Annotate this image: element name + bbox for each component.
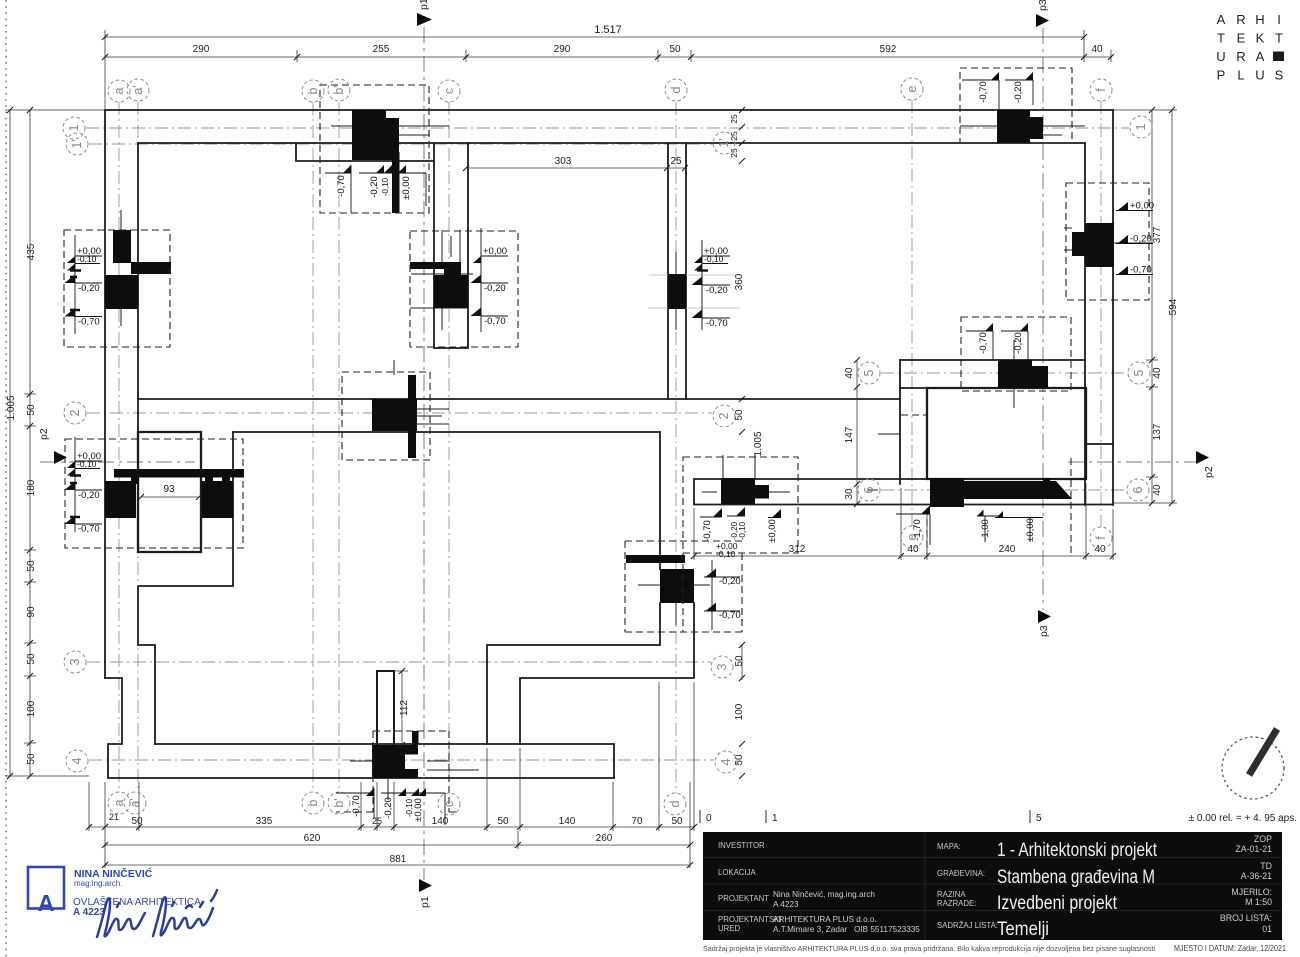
svg-text:-1,70: -1,70 <box>912 519 923 541</box>
svg-text:-0,10: -0,10 <box>77 459 97 469</box>
grid row 5 <box>881 372 1127 374</box>
section marker p3 bottom <box>1038 610 1051 623</box>
svg-text:40: 40 <box>907 544 919 555</box>
svg-text:A 4223: A 4223 <box>73 907 105 918</box>
svg-text:d: d <box>669 86 683 93</box>
svg-text:Sadržaj projekta je vlasništvo: Sadržaj projekta je vlasništvo ARHITEKTU… <box>703 944 1155 953</box>
wall col-d <box>668 143 686 399</box>
svg-text:5: 5 <box>1036 813 1042 824</box>
svg-text:p2: p2 <box>1203 466 1215 478</box>
svg-text:Temelji: Temelji <box>997 919 1049 940</box>
pad row3 col d <box>626 555 685 563</box>
G6: texts <box>63 72 1154 825</box>
svg-text:881: 881 <box>390 854 407 865</box>
svg-text:RAZINA: RAZINA <box>937 890 966 899</box>
svg-text:137: 137 <box>1152 423 1163 440</box>
pad col e top <box>997 110 1030 143</box>
svg-text:b: b <box>306 799 320 806</box>
right section connector y388 <box>900 387 927 389</box>
svg-text:112: 112 <box>399 700 410 716</box>
rebar lines col f pad <box>1064 228 1152 250</box>
flag cluster col b rotated lines <box>325 165 426 213</box>
pad col d row1' <box>668 274 686 309</box>
logo ARHITEKTURA PLUS <box>1216 12 1283 83</box>
svg-text:mag.ing.arch.: mag.ing.arch. <box>74 879 122 888</box>
compass needle <box>1249 729 1277 775</box>
G4: dashed foundation boxes <box>64 68 1149 812</box>
svg-text:40: 40 <box>1152 484 1163 496</box>
dim line 112 <box>394 671 408 745</box>
svg-text:LOKACIJA: LOKACIJA <box>718 868 756 877</box>
svg-text:R: R <box>1236 12 1245 27</box>
flag triangles col c <box>473 256 481 263</box>
svg-text:PROJEKTANTSKI: PROJEKTANTSKI <box>718 915 782 924</box>
right section step y444 <box>1086 443 1113 445</box>
svg-text:-0,20: -0,20 <box>1130 234 1152 245</box>
svg-text:25: 25 <box>670 156 682 167</box>
dim extension right bottom <box>694 483 1113 560</box>
grid column a <box>118 102 120 792</box>
svg-text:620: 620 <box>304 833 321 844</box>
svg-text:335: 335 <box>256 816 273 827</box>
svg-text:SADRŽAJ LISTA:: SADRŽAJ LISTA: <box>937 921 998 930</box>
corridor walls row6 <box>694 479 1113 505</box>
svg-text:+0,00: +0,00 <box>1130 201 1154 212</box>
section marker p3 top <box>1036 14 1049 27</box>
svg-text:R: R <box>1236 49 1245 64</box>
section lines <box>40 27 1196 880</box>
svg-text:-0,70: -0,70 <box>702 520 713 542</box>
svg-text:-1,00: -1,00 <box>980 519 991 541</box>
section line p2 left <box>40 461 195 463</box>
svg-text:b': b' <box>332 798 346 807</box>
rebar lines col e pad row5 <box>1013 340 1015 408</box>
svg-text:1.517: 1.517 <box>594 24 622 36</box>
svg-text:GRAĐEVINA:: GRAĐEVINA: <box>937 869 985 878</box>
svg-text:-0,10: -0,10 <box>704 254 724 264</box>
svg-text:T: T <box>1217 31 1225 46</box>
flag cluster col e top lines <box>962 80 1033 110</box>
svg-text:-0,20: -0,20 <box>369 176 380 198</box>
dim labels horizontal <box>109 24 1106 865</box>
svg-text:3: 3 <box>68 658 82 665</box>
svg-text:± 0.00 rel. = + 4. 95 aps.: ± 0.00 rel. = + 4. 95 aps. <box>1189 813 1297 824</box>
svg-text:5: 5 <box>1132 369 1146 376</box>
foundation box row3 pad <box>625 541 742 632</box>
svg-text:290: 290 <box>193 44 210 55</box>
dim extension right <box>1113 110 1177 503</box>
svg-text:RAZRADE:: RAZRADE: <box>937 899 976 908</box>
svg-text:a': a' <box>131 85 145 94</box>
svg-text:40: 40 <box>1152 367 1163 379</box>
svg-text:-0,70: -0,70 <box>78 524 100 535</box>
dim line top segments <box>105 56 1111 58</box>
logo square <box>1273 52 1284 62</box>
right wall inner <box>1084 143 1086 505</box>
flag cluster right bottom lines <box>896 514 1043 545</box>
G5: dimension lines <box>5 30 1177 868</box>
svg-text:f: f <box>1094 88 1108 92</box>
grid column c <box>448 102 450 793</box>
dim line left total 1.005 <box>9 110 11 776</box>
svg-text:I: I <box>1277 12 1281 27</box>
rotated flags row5 pad <box>985 323 1028 331</box>
svg-text:40: 40 <box>844 367 855 379</box>
elevation flags <box>70 80 1153 825</box>
svg-text:-0,20: -0,20 <box>78 490 100 501</box>
svg-text:50: 50 <box>26 653 37 665</box>
svg-text:50: 50 <box>26 560 37 572</box>
compass <box>1222 737 1284 799</box>
svg-text:0: 0 <box>706 813 712 824</box>
svg-text:A-36-21: A-36-21 <box>1241 871 1272 881</box>
dim line 93 <box>141 496 199 498</box>
rotated flags right bottom <box>921 506 1003 518</box>
wall col-d lower stub <box>659 432 661 569</box>
svg-text:b': b' <box>332 85 346 94</box>
section marker p1 bottom <box>419 879 432 892</box>
grid row 1 <box>86 127 1129 129</box>
foundation box row2 col b <box>342 372 430 460</box>
dim line left segments <box>29 110 31 776</box>
svg-text:-0,10: -0,10 <box>738 521 747 540</box>
foundation box stair cluster <box>65 439 243 548</box>
svg-text:±0,00: ±0,00 <box>401 176 412 200</box>
svg-text:1: 1 <box>1134 123 1148 130</box>
svg-text:1': 1' <box>717 138 731 147</box>
svg-text:30: 30 <box>844 488 855 500</box>
dim line mid rows 5-6 <box>856 360 858 504</box>
rebar lines right bottom pad <box>868 434 900 490</box>
svg-text:-0,20: -0,20 <box>78 283 100 294</box>
svg-text:b: b <box>306 87 320 94</box>
flag triangles col a <box>67 256 75 271</box>
svg-text:255: 255 <box>373 44 390 55</box>
svg-text:URED: URED <box>718 924 740 933</box>
flag cluster col d lines <box>702 240 730 330</box>
thin reinforcement lines <box>121 126 1152 800</box>
svg-text:a': a' <box>128 798 142 807</box>
svg-text:377: 377 <box>1152 226 1163 243</box>
rebar lines col c cluster <box>410 230 473 330</box>
right section room <box>927 388 1086 479</box>
rebar lines chimney <box>350 761 479 800</box>
svg-text:L: L <box>1237 68 1244 83</box>
svg-text:MJESTO I DATUM: Zadar, 12/2021: MJESTO I DATUM: Zadar, 12/2021 <box>1174 943 1286 953</box>
dim line right segments <box>1151 110 1153 503</box>
dim line mid rows x742 (segments only) <box>741 645 743 680</box>
svg-text:H: H <box>1255 12 1264 27</box>
svg-text:-0,10: -0,10 <box>716 549 736 559</box>
svg-text:100: 100 <box>734 703 745 720</box>
svg-text:P: P <box>1217 68 1226 83</box>
dim labels rotated <box>6 114 1179 766</box>
stamp box <box>28 867 64 909</box>
svg-text:-0,20: -0,20 <box>484 283 506 294</box>
foundation box right bottom <box>901 415 1071 556</box>
right section wall y360 <box>900 359 1085 361</box>
dim line right total 594 <box>1171 110 1173 503</box>
svg-text:50: 50 <box>734 655 745 667</box>
rebar lines col b top <box>310 126 449 143</box>
pad right bottom strip <box>930 478 964 507</box>
svg-text:A: A <box>1217 12 1226 27</box>
svg-text:1.005: 1.005 <box>6 395 17 420</box>
svg-text:A 4223: A 4223 <box>773 900 799 909</box>
pad row5 col e <box>998 360 1032 388</box>
svg-text:100: 100 <box>26 700 37 717</box>
svg-text:290: 290 <box>554 44 571 55</box>
svg-text:-0,70: -0,70 <box>706 318 728 329</box>
stamp texts <box>73 867 201 918</box>
svg-text:S: S <box>1275 68 1284 83</box>
svg-text:c: c <box>442 801 456 807</box>
wall col-c <box>434 143 468 348</box>
section marker p1 top <box>417 13 432 26</box>
G1: grid lines <box>86 100 1129 793</box>
flag cluster col f lines <box>1116 211 1153 275</box>
wall stair inner <box>138 432 233 744</box>
svg-text:4: 4 <box>719 758 733 765</box>
svg-text:K: K <box>1256 31 1265 46</box>
dim line top total 1.517 <box>105 36 1085 38</box>
svg-text:-0,70: -0,70 <box>978 332 989 354</box>
signature <box>97 890 217 937</box>
dim line bottom segments <box>89 826 694 828</box>
svg-text:-0,20: -0,20 <box>706 285 728 296</box>
section line p1 <box>423 27 425 880</box>
section line p3 <box>1042 28 1044 610</box>
dim extension top <box>105 30 1111 110</box>
svg-text:50: 50 <box>131 816 143 827</box>
svg-text:A.T.Mimare 3, Zadar OIB 5511: A.T.Mimare 3, Zadar OIB 55117523335 <box>773 925 920 934</box>
foundation box col f <box>1066 183 1149 300</box>
svg-text:70: 70 <box>631 816 643 827</box>
foundation box col b <box>320 85 429 213</box>
wall bottom inner <box>155 744 614 778</box>
flag triangles col d <box>694 256 702 271</box>
svg-text:40: 40 <box>1094 544 1106 555</box>
svg-text:ARHITEKTURA PLUS d.o.o.: ARHITEKTURA PLUS d.o.o. <box>773 915 877 924</box>
flag cluster col a lines <box>75 235 102 334</box>
svg-text:TD: TD <box>1260 861 1272 871</box>
grid row 3 <box>87 661 711 663</box>
svg-text:01: 01 <box>1262 924 1272 934</box>
svg-text:140: 140 <box>559 816 576 827</box>
svg-text:Izvedbeni projekt: Izvedbeni projekt <box>997 893 1118 914</box>
svg-text:6: 6 <box>1131 486 1145 493</box>
right section wall x900 <box>899 360 901 484</box>
wall top inner step <box>296 143 434 161</box>
flag cluster col c lines <box>481 228 508 332</box>
svg-text:180: 180 <box>26 479 37 496</box>
svg-text:-0,70: -0,70 <box>719 610 741 621</box>
svg-text:50: 50 <box>26 404 37 416</box>
svg-text:3: 3 <box>715 663 729 670</box>
foundation box chimney <box>336 731 460 812</box>
svg-text:25: 25 <box>729 148 739 158</box>
svg-text:5: 5 <box>862 369 876 376</box>
grid column b' <box>338 102 340 792</box>
svg-text:T: T <box>1275 31 1283 46</box>
wall left outer <box>104 110 106 678</box>
svg-text:c: c <box>442 88 456 94</box>
foundation box col c <box>410 231 518 347</box>
grid row 1' <box>89 143 712 145</box>
svg-text:p3: p3 <box>1037 0 1049 11</box>
dim line bottom 620/260 <box>105 844 690 846</box>
svg-text:-0,70: -0,70 <box>336 175 347 197</box>
svg-text:Stambena građevina M: Stambena građevina M <box>997 867 1155 888</box>
perforation dotted line left edge <box>5 0 7 957</box>
svg-text:E: E <box>1237 31 1246 46</box>
svg-text:1 - Arhitektonski projekt: 1 - Arhitektonski projekt <box>997 840 1158 861</box>
grid row 6 <box>881 489 1126 491</box>
foundation box col e top <box>960 68 1072 143</box>
svg-text:e: e <box>905 85 919 92</box>
svg-text:MAPA:: MAPA: <box>937 842 961 851</box>
svg-text:U: U <box>1255 68 1264 83</box>
svg-text:A: A <box>1256 49 1265 64</box>
dim line bottom 881 <box>105 864 690 866</box>
flag cluster stair lines <box>75 437 102 532</box>
svg-text:1.005: 1.005 <box>753 431 764 456</box>
svg-text:147: 147 <box>844 426 855 443</box>
svg-text:M 1:50: M 1:50 <box>1245 897 1272 907</box>
svg-text:-0,10: -0,10 <box>77 254 97 264</box>
grid column f <box>1100 101 1102 527</box>
svg-text:50: 50 <box>734 409 745 421</box>
svg-text:-0,20: -0,20 <box>1013 81 1024 103</box>
scale bar <box>700 810 1030 823</box>
svg-text:1: 1 <box>67 124 81 131</box>
rotated flags chimney <box>366 788 426 796</box>
grid row 2 <box>87 412 712 414</box>
flag cluster corridor lines <box>700 516 781 630</box>
svg-text:303: 303 <box>555 156 572 167</box>
wall top outer <box>105 109 1113 111</box>
flag triangles stair <box>67 461 75 476</box>
svg-text:-0,70: -0,70 <box>1130 265 1152 276</box>
svg-text:p1: p1 <box>419 896 431 908</box>
wall left inner <box>137 143 139 432</box>
dim extension bottom <box>89 682 694 868</box>
svg-text:p1: p1 <box>418 0 430 10</box>
wall left bottom notch <box>105 678 614 778</box>
rebar lines col e top <box>960 126 1085 135</box>
svg-text:6: 6 <box>862 486 876 493</box>
section marker p2 right <box>1196 451 1209 464</box>
flag triangles col f <box>1118 202 1129 211</box>
wall row3 <box>487 603 694 744</box>
rotated flags col e top <box>991 72 1033 80</box>
svg-text:4: 4 <box>70 757 84 764</box>
section line p2 right <box>1068 461 1196 463</box>
svg-text:140: 140 <box>432 816 449 827</box>
flag cluster row5 pad lines <box>966 331 1028 362</box>
foundation box row5 col e <box>961 317 1071 391</box>
flag cluster chimney lines <box>336 788 445 825</box>
svg-text:240: 240 <box>999 544 1016 555</box>
svg-text:p3: p3 <box>1038 625 1050 637</box>
svg-text:90: 90 <box>26 606 37 618</box>
svg-text:±0,00: ±0,00 <box>767 519 778 543</box>
svg-text:PROJEKTANT: PROJEKTANT <box>718 894 769 903</box>
right wall outer <box>1112 110 1114 505</box>
G3: pads <box>105 110 1114 779</box>
svg-text:a: a <box>112 799 126 806</box>
dim ticks <box>7 34 1175 868</box>
svg-text:BROJ LISTA:: BROJ LISTA: <box>1220 913 1272 923</box>
svg-text:594: 594 <box>1168 298 1179 315</box>
svg-text:25: 25 <box>372 816 382 826</box>
svg-text:p2: p2 <box>38 428 50 440</box>
pad col b top <box>352 110 386 160</box>
rebar lines col a cluster <box>120 210 122 326</box>
flag labels <box>77 201 1154 622</box>
svg-text:ZOP: ZOP <box>1254 834 1272 844</box>
dim line 303 <box>466 167 685 169</box>
svg-text:d: d <box>668 800 682 807</box>
foundation box col a <box>64 230 170 347</box>
svg-text:40: 40 <box>1091 44 1103 55</box>
dim extension left <box>5 110 105 776</box>
svg-text:1': 1' <box>70 139 84 148</box>
svg-text:-0,70: -0,70 <box>78 317 100 328</box>
pad corridor <box>721 478 755 504</box>
rotated flags corridor <box>713 507 781 518</box>
svg-text:260: 260 <box>596 833 613 844</box>
svg-text:312: 312 <box>789 544 806 555</box>
grid circles <box>63 78 1152 815</box>
svg-text:MJERILO:: MJERILO: <box>1231 887 1272 897</box>
svg-text:±0,00: ±0,00 <box>413 798 424 822</box>
pad stair cluster left <box>114 469 244 478</box>
svg-text:a: a <box>112 87 126 94</box>
svg-text:-0,70: -0,70 <box>351 795 362 817</box>
svg-text:-0,70: -0,70 <box>484 316 506 327</box>
svg-text:A: A <box>38 890 55 916</box>
svg-text:50: 50 <box>26 753 37 765</box>
wall row2 upper <box>138 398 900 400</box>
svg-text:-0,20: -0,20 <box>719 576 741 587</box>
wall row2 lower <box>233 431 660 433</box>
svg-text:f: f <box>1094 536 1108 540</box>
svg-text:2: 2 <box>68 409 82 416</box>
svg-text:INVESTITOR: INVESTITOR <box>718 841 765 850</box>
svg-text:50: 50 <box>497 816 509 827</box>
G2: walls <box>105 110 1113 778</box>
pad row2 col b <box>372 399 417 431</box>
grid column d <box>675 102 677 793</box>
rebar lines row3 pad <box>638 585 710 625</box>
svg-text:-0,10: -0,10 <box>381 177 390 196</box>
pad chimney <box>372 745 405 778</box>
svg-text:50: 50 <box>671 816 683 827</box>
rotated flags col b <box>343 165 406 173</box>
svg-text:Nina Ninčević, mag.ing.arch: Nina Ninčević, mag.ing.arch <box>773 890 875 899</box>
svg-text:435: 435 <box>26 243 37 260</box>
svg-text:592: 592 <box>880 44 897 55</box>
svg-text:1: 1 <box>772 813 778 824</box>
foundation box corridor pad <box>683 457 798 553</box>
rebar lines row2 pad <box>394 360 449 424</box>
wall top inner <box>138 142 1085 144</box>
grid column b <box>312 102 314 792</box>
stair room <box>138 432 201 552</box>
grid column e <box>911 100 913 526</box>
pad col c cluster <box>410 262 461 269</box>
